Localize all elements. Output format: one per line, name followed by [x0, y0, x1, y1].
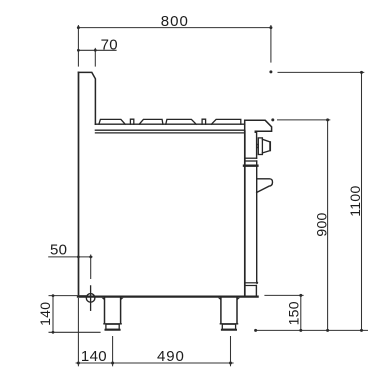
svg-text:70: 70	[101, 36, 118, 53]
svg-text:150: 150	[286, 301, 302, 325]
svg-text:490: 490	[157, 348, 185, 365]
svg-text:140: 140	[37, 302, 53, 326]
svg-text:1100: 1100	[347, 185, 363, 216]
svg-text:900: 900	[313, 212, 329, 236]
svg-text:140: 140	[81, 348, 107, 365]
svg-text:50: 50	[50, 241, 67, 258]
svg-text:800: 800	[161, 13, 189, 30]
